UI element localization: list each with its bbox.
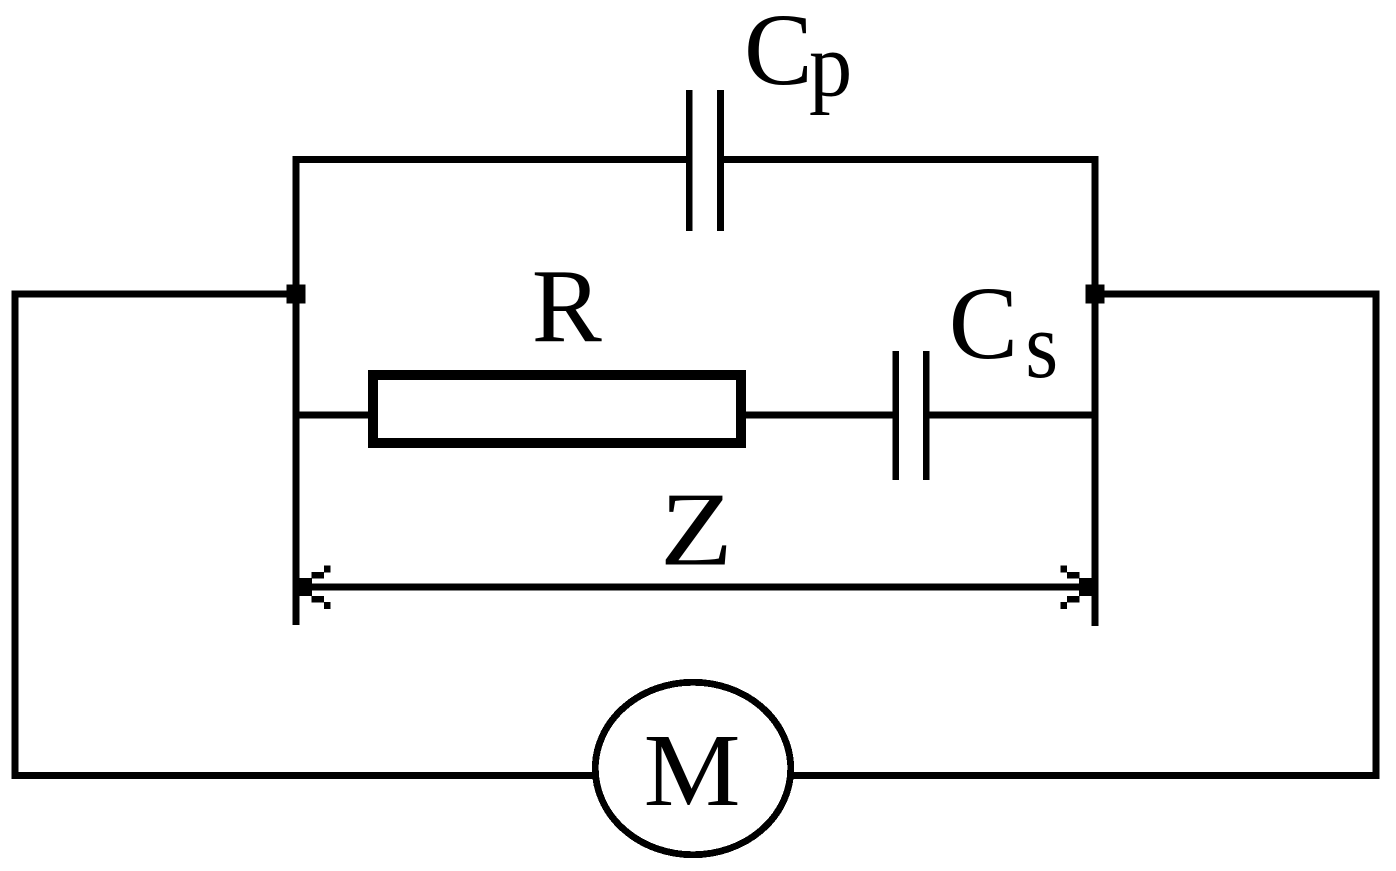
svg-text:p: p (809, 16, 852, 116)
meter M (circle) (595, 682, 791, 855)
wire inner left vertical + top branch left segment (296, 160, 686, 626)
label Cp (744, 0, 852, 116)
svg-text:R: R (532, 247, 602, 364)
svg-text:s: s (1025, 294, 1058, 398)
arrowhead right (1061, 566, 1093, 609)
svg-text:M: M (644, 713, 741, 828)
node A (left junction dot) (287, 285, 306, 304)
resistor R (373, 375, 741, 443)
label Cs (949, 266, 1058, 398)
wire outer left loop (node A to meter, via left side) (15, 294, 596, 776)
wire outer right loop (node B to meter, via right side) (790, 294, 1376, 776)
wire middle branch left stub (296, 412, 370, 419)
svg-text:Z: Z (660, 472, 733, 588)
node B (right junction dot) (1086, 285, 1105, 304)
wire middle branch right stub (930, 412, 1095, 419)
wire inner top branch right segment + right vertical (724, 160, 1095, 627)
dimension arrow line Z (308, 584, 1082, 591)
capacitor Cp (689, 90, 720, 231)
svg-text:C: C (744, 0, 813, 107)
arrowhead left (299, 566, 331, 609)
svg-text:C: C (949, 266, 1018, 381)
wire middle branch between R and Cs (746, 412, 893, 419)
capacitor Cs (896, 351, 926, 480)
